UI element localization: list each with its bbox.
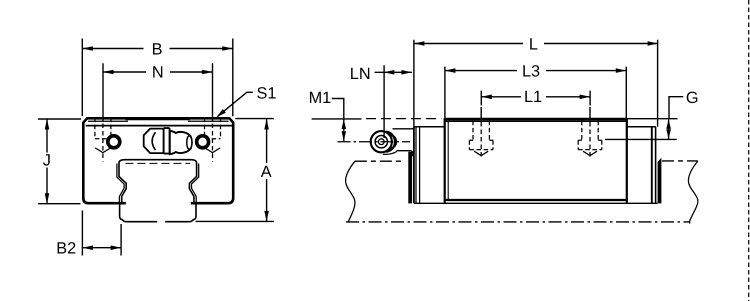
end cap left (414, 127, 445, 204)
svg-text:A: A (261, 163, 272, 181)
dimension J (38, 119, 81, 204)
carriage body side (414, 118, 658, 203)
label S1 with leader (216, 84, 276, 117)
wiper lip left (408, 152, 412, 204)
nipple boss chin (397, 151, 413, 157)
dimension N (103, 63, 213, 121)
svg-text:B2: B2 (56, 240, 76, 258)
carriage top edge inner line near holes (88, 120, 229, 122)
svg-text:LN: LN (350, 65, 371, 83)
svg-text:S1: S1 (257, 84, 277, 102)
page edge dashed line (748, 0, 750, 301)
nipple bottom tangent (383, 152, 397, 155)
svg-text:G: G (686, 89, 699, 107)
rail bottom line (dash-dot) (346, 221, 690, 223)
carriage body raised top edge (126, 118, 190, 121)
svg-text:M1: M1 (309, 89, 332, 107)
mounting hole right (hidden) in side view (578, 107, 602, 158)
dimension LN (350, 65, 412, 83)
rail left break line (346, 161, 355, 222)
block inner profile left (117, 164, 124, 203)
rail right break line (688, 161, 698, 224)
carriage top face seam line (86, 125, 233, 127)
nipple centerline vertical (383, 65, 385, 138)
mounting hole left (hidden) in side view (469, 107, 493, 158)
wiper lip right (658, 158, 662, 204)
lube port right (197, 136, 209, 148)
grease nipple cone arc (152, 132, 155, 150)
dimension L3 (445, 62, 626, 119)
rail right section top (dashed) (662, 160, 698, 162)
svg-text:N: N (152, 64, 164, 82)
dimension A (196, 119, 274, 222)
threaded hole S1 right (hidden) (205, 118, 221, 162)
carriage block outline (83, 118, 233, 203)
dimension L (414, 35, 658, 126)
svg-text:L: L (529, 35, 538, 53)
rail top chamfer line (dashed) (126, 162, 191, 164)
grease nipple ball body (170, 131, 192, 154)
svg-text:L1: L1 (524, 88, 542, 106)
grease nipple collar (164, 128, 170, 154)
threaded hole S1 left (hidden) (95, 118, 111, 162)
lube port left (108, 136, 120, 148)
grease nipple front view (371, 131, 397, 152)
svg-text:L3: L3 (522, 62, 540, 80)
svg-text:B: B (152, 40, 163, 58)
grease nipple hex (144, 129, 169, 154)
dimension M1 (309, 89, 442, 141)
rail left section top (dashed) (355, 160, 403, 162)
dimension B (82, 39, 233, 117)
svg-text:J: J (43, 151, 51, 169)
end cap right (627, 127, 656, 204)
dimension G (605, 89, 699, 139)
dimension B2 (56, 211, 121, 258)
rail profile (119, 160, 197, 222)
grease nipple tip ellipse (187, 136, 192, 150)
dimension L1 (481, 88, 590, 106)
nipple centerline horizontal (dash-dot) (338, 141, 411, 143)
nipple boss top line (393, 128, 414, 130)
block inner profile right (192, 164, 199, 203)
